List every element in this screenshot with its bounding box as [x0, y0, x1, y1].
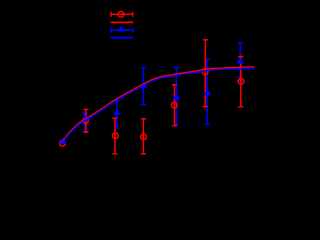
blue error bar line F7 [239, 43, 241, 81]
legend entry 2: red fit line sample [110, 21, 133, 23]
red data point P1 open circle [60, 140, 66, 146]
blue data point T7 filled triangle [236, 57, 244, 63]
red error bar line E3 [114, 118, 116, 154]
red error bar caps E7 [238, 57, 243, 107]
legend entry 1: red errorbar sample with open circle marker [110, 11, 133, 17]
blue error bar caps F3 [114, 100, 119, 128]
blue error bar line F5 [175, 67, 177, 124]
blue error bar line F2 [84, 113, 86, 132]
blue data point T5 filled triangle [173, 93, 181, 99]
red error bar caps E6 [203, 40, 208, 107]
blue data point T4 filled triangle [140, 82, 148, 88]
red error bar line E2 [85, 109, 87, 132]
red error bar caps E5 [172, 85, 177, 126]
red data point P7 open circle [238, 78, 244, 84]
red error bar line E7 [240, 57, 242, 107]
legend entry 4: blue fit line sample [110, 37, 133, 39]
blue error bar caps F4 [141, 68, 146, 105]
blue data point T2 filled triangle [82, 115, 90, 121]
red error bar caps E4 [141, 119, 146, 154]
red data point P3 open circle [112, 133, 118, 139]
red error bar caps E3 [112, 118, 117, 154]
legend entry 3: blue errorbar sample with filled triangle marker [110, 25, 133, 32]
blue data point T3 filled triangle [113, 109, 121, 115]
blue error bar caps F5 [174, 67, 179, 124]
red error bar line E6 [204, 40, 206, 107]
red error bar caps E2 [83, 109, 88, 132]
red data point P6 open circle [202, 69, 208, 75]
blue error bar line F4 [142, 68, 144, 105]
blue error bar caps F2 [82, 113, 87, 132]
red fit curve [62, 67, 255, 143]
blue data point T6 filled triangle [204, 89, 212, 95]
red data point P5 open circle [171, 102, 177, 108]
red data point P2 open circle [83, 118, 89, 124]
blue fit curve [62, 68, 255, 144]
red error bar line E4 [142, 119, 144, 154]
blue data point T1 filled triangle [59, 138, 67, 144]
blue error bar caps F7 [238, 43, 243, 81]
blue error bar caps F6 [205, 59, 210, 124]
blue error bar line F6 [206, 59, 208, 124]
red error bar line E5 [174, 85, 176, 126]
red data point P4 open circle [141, 134, 147, 140]
blue error bar line F3 [116, 100, 118, 128]
